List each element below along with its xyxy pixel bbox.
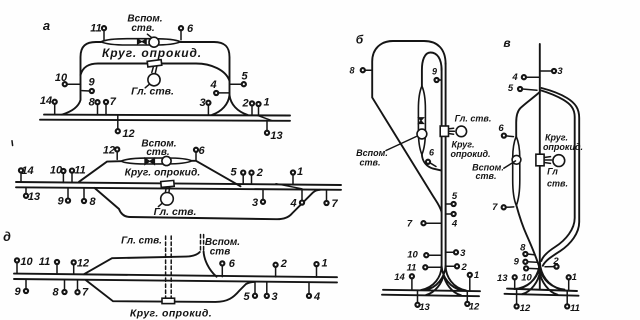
svg-text:12: 12: [122, 128, 134, 140]
callout stv to circle: [147, 34, 151, 37]
wire center line: [539, 44, 541, 289]
svg-text:ств.: ств.: [476, 171, 497, 181]
post 3: [540, 66, 563, 77]
svg-text:ств.: ств.: [131, 23, 154, 34]
label vspom stv: [356, 148, 388, 168]
wire main line 2: [40, 120, 290, 121]
post 11: [407, 262, 442, 273]
post 5: [446, 191, 458, 206]
label krug oprokid: [543, 133, 583, 153]
svg-text:4: 4: [511, 72, 518, 83]
svg-text:Круг. опрокид.: Круг. опрокид.: [130, 308, 212, 320]
svg-text:13: 13: [419, 302, 430, 313]
throat curves: [421, 266, 466, 295]
svg-text:2: 2: [256, 167, 263, 179]
svg-text:д: д: [3, 230, 11, 244]
post 6: [194, 145, 206, 160]
post 4: [289, 190, 304, 210]
dumper ticks: [449, 128, 454, 134]
crossing X on lens: [137, 39, 146, 44]
svg-text:2: 2: [241, 98, 248, 110]
svg-text:ств: ств: [210, 247, 231, 258]
svg-text:2: 2: [461, 262, 468, 273]
svg-text:Гл: Гл: [547, 167, 558, 177]
post 9: [514, 257, 537, 268]
post 7: [324, 190, 338, 210]
svg-text:12: 12: [77, 258, 89, 270]
svg-text:11: 11: [74, 164, 85, 176]
svg-text:6: 6: [229, 258, 236, 270]
post 12: [515, 289, 531, 314]
post 11: [70, 164, 86, 182]
svg-text:13: 13: [497, 273, 508, 284]
svg-text:4: 4: [451, 219, 458, 230]
svg-text:13: 13: [270, 130, 282, 142]
svg-text:11: 11: [407, 262, 417, 273]
svg-text:1: 1: [263, 97, 269, 109]
svg-text:6: 6: [498, 123, 504, 134]
svg-text:7: 7: [110, 96, 117, 108]
dumper legs: [152, 66, 157, 72]
wire main line 2: [16, 187, 341, 190]
svg-text:Круг. опрокид.: Круг. опрокид.: [125, 168, 201, 179]
post 10: [55, 72, 81, 86]
wire vspom branch: [204, 252, 217, 277]
dumper rect: [162, 298, 175, 303]
svg-text:а: а: [43, 18, 50, 33]
post 7: [407, 219, 442, 230]
dumper circle: [456, 126, 467, 137]
svg-text:5: 5: [241, 71, 248, 83]
post 6: [179, 23, 194, 40]
svg-text:5: 5: [230, 167, 237, 179]
svg-text:Вспом.: Вспом.: [356, 148, 388, 158]
post 2: [274, 258, 287, 277]
dashed vspom line: [201, 235, 204, 253]
post 7: [492, 202, 514, 213]
svg-text:Круг.: Круг.: [452, 140, 475, 150]
post 13: [265, 121, 283, 142]
post 8: [520, 243, 534, 257]
crossover: [276, 184, 302, 189]
label vspom: [205, 237, 240, 258]
wire outer loop: [62, 42, 248, 115]
wire main line 1: [44, 114, 290, 117]
post 9: [14, 279, 28, 298]
post 14: [19, 165, 34, 182]
lens siding: [513, 136, 520, 205]
lens siding: [121, 158, 192, 164]
dumper circle: [148, 74, 160, 86]
svg-text:3: 3: [199, 97, 205, 109]
post 14: [394, 272, 414, 290]
post 5: [230, 71, 248, 87]
lens circle: [149, 37, 159, 47]
dashed gl line: [166, 236, 172, 298]
lens siding top: [101, 39, 181, 45]
post 4: [511, 72, 539, 83]
svg-text:9: 9: [514, 257, 520, 268]
wire bottom line 1: [383, 290, 480, 291]
wire main line 1: [14, 274, 337, 278]
label vspom stv: [127, 14, 162, 35]
label gl stv: [547, 167, 568, 189]
dumper legs: [165, 187, 169, 192]
wire inner loop left: [81, 64, 230, 82]
wire outer loop right-left switch: [212, 95, 230, 115]
dumper circle: [161, 193, 174, 206]
svg-text:10: 10: [20, 256, 33, 268]
dumper circle tail: [145, 84, 149, 88]
svg-text:14: 14: [394, 272, 405, 283]
svg-text:3: 3: [557, 66, 563, 77]
post 4: [209, 79, 229, 95]
svg-text:Гл. ств.: Гл. ств.: [121, 236, 162, 247]
label vspom stv: [472, 163, 504, 182]
post 13: [497, 273, 517, 289]
post 7: [75, 280, 89, 299]
svg-text:7: 7: [492, 202, 498, 213]
svg-text:б: б: [356, 33, 364, 47]
post 10: [50, 165, 66, 183]
svg-text:7: 7: [331, 198, 338, 210]
svg-text:14: 14: [40, 95, 52, 107]
post 8: [349, 66, 372, 76]
svg-text:9: 9: [57, 195, 64, 207]
svg-text:12: 12: [520, 303, 531, 314]
lens circle: [512, 155, 521, 164]
post 5: [243, 282, 257, 303]
dumper circle tail: [158, 203, 162, 207]
wire below lens diagonal: [516, 206, 539, 269]
svg-text:6: 6: [187, 23, 194, 35]
svg-text:опрокид.: опрокид.: [543, 142, 583, 152]
svg-text:Гл. ств.: Гл. ств.: [455, 114, 492, 124]
wire stem outer: [445, 63, 447, 268]
svg-text:9: 9: [88, 77, 95, 89]
svg-text:5: 5: [508, 83, 514, 94]
wire stem inner: [441, 68, 443, 268]
svg-text:1: 1: [474, 270, 479, 281]
svg-text:7: 7: [407, 219, 413, 230]
svg-text:11: 11: [570, 303, 580, 314]
svg-text:6: 6: [429, 148, 435, 158]
dumper rect: [440, 126, 448, 136]
dumper rect: [536, 154, 544, 166]
svg-text:11: 11: [90, 23, 101, 35]
post 9: [432, 67, 442, 83]
svg-text:ств.: ств.: [547, 179, 568, 189]
post 1: [468, 270, 479, 291]
svg-text:1: 1: [572, 272, 577, 283]
PANEL-D: [3, 230, 337, 320]
label krug oprokid: [450, 140, 490, 160]
dumper circle: [553, 155, 565, 167]
svg-text:3: 3: [460, 248, 466, 259]
lens siding: [418, 86, 425, 155]
post 10: [407, 250, 441, 261]
svg-text:ств.: ств.: [146, 147, 169, 158]
post 8: [89, 97, 100, 115]
lens circle: [162, 156, 171, 165]
crossing X on lens: [418, 118, 423, 124]
post 12: [103, 145, 119, 160]
wire hook to lens: [422, 53, 442, 87]
small mark g: [11, 141, 14, 146]
wire bottom line 2: [382, 295, 479, 297]
PANEL-V: [472, 36, 583, 314]
wire right branch outer: [542, 88, 580, 266]
svg-text:5: 5: [452, 191, 458, 202]
callout line: [386, 137, 416, 151]
post 8: [82, 188, 97, 208]
throat curves: [515, 262, 565, 295]
crossover near 13: [258, 116, 272, 121]
svg-text:Гл. ств.: Гл. ств.: [131, 86, 174, 98]
wire right branch inner: [540, 90, 575, 261]
post 3: [446, 248, 467, 259]
post 3: [252, 189, 265, 208]
svg-text:1: 1: [297, 166, 303, 178]
post 10: [521, 266, 537, 283]
wire main line 2: [14, 279, 337, 282]
post 5: [508, 83, 537, 94]
post 14: [40, 95, 57, 115]
svg-text:11: 11: [39, 256, 50, 268]
wire lens bottom connector: [422, 155, 442, 171]
post 10: [15, 256, 34, 274]
post 4: [446, 212, 458, 230]
svg-text:3: 3: [252, 197, 258, 209]
post 13: [415, 290, 430, 313]
svg-text:5: 5: [243, 291, 250, 303]
svg-text:8: 8: [349, 66, 354, 76]
post 3: [199, 97, 210, 115]
wire lower loop: [86, 280, 255, 302]
post 12: [72, 258, 90, 275]
svg-text:опрокид.: опрокид.: [450, 149, 490, 159]
svg-text:Круг.: Круг.: [545, 133, 568, 143]
crossing X on lens: [145, 158, 155, 165]
post 5 pair: [230, 167, 253, 185]
svg-text:7: 7: [82, 286, 89, 298]
callout line: [504, 161, 516, 168]
post 2: [545, 256, 559, 269]
post 12: [465, 291, 480, 313]
post 3: [265, 282, 278, 303]
post 1: [567, 272, 577, 290]
post 6: [220, 258, 236, 277]
post 12: [116, 115, 135, 140]
post 9: [82, 77, 95, 94]
svg-text:Гл. ств.: Гл. ств.: [154, 206, 197, 218]
svg-text:1: 1: [321, 258, 327, 270]
svg-text:2: 2: [280, 258, 287, 270]
post 1: [314, 258, 327, 278]
post 9: [57, 188, 70, 207]
svg-text:9: 9: [14, 286, 21, 298]
post 2: [446, 262, 468, 273]
svg-text:8: 8: [52, 287, 59, 299]
post 7: [104, 96, 117, 115]
wire bottom line 2: [505, 294, 579, 296]
PANEL-B: [349, 33, 491, 314]
svg-text:12: 12: [103, 145, 115, 157]
svg-text:10: 10: [407, 250, 418, 261]
wire outer loop and diagonal: [372, 41, 445, 212]
dumper rect: [147, 60, 162, 67]
PANEL-G: [12, 139, 341, 220]
svg-text:13: 13: [28, 191, 40, 203]
svg-text:8: 8: [90, 196, 97, 208]
svg-text:4: 4: [289, 198, 296, 210]
post 11: [90, 23, 106, 40]
post 11: [39, 256, 59, 274]
post 1: [291, 166, 303, 185]
lens circle: [417, 129, 427, 139]
dumper rect: [161, 180, 174, 187]
svg-text:в: в: [503, 36, 510, 50]
svg-text:9: 9: [432, 67, 437, 77]
PANEL-A: [40, 14, 290, 143]
post 11: [565, 291, 580, 315]
wire bottom line 1: [507, 289, 577, 291]
wire lower loop: [95, 188, 321, 219]
post 4: [307, 283, 320, 303]
dumper ticks: [545, 157, 552, 164]
svg-text:4: 4: [313, 291, 320, 303]
svg-text:4: 4: [209, 79, 216, 91]
post 2 pair: [241, 98, 260, 116]
wire left branch: [516, 92, 540, 136]
wire main line 1: [16, 182, 341, 185]
label vspom stv: [141, 139, 176, 159]
wire upper siding: [84, 252, 200, 274]
svg-text:3: 3: [271, 291, 277, 303]
wire upper siding: [79, 161, 241, 187]
svg-text:6: 6: [198, 145, 205, 157]
post 8: [52, 280, 66, 299]
post 6: [498, 123, 513, 138]
svg-text:12: 12: [469, 302, 480, 313]
svg-text:ств.: ств.: [360, 158, 381, 168]
post 13: [24, 187, 40, 203]
post 6: [426, 148, 436, 167]
svg-text:Круг. опрокид.: Круг. опрокид.: [102, 46, 202, 60]
